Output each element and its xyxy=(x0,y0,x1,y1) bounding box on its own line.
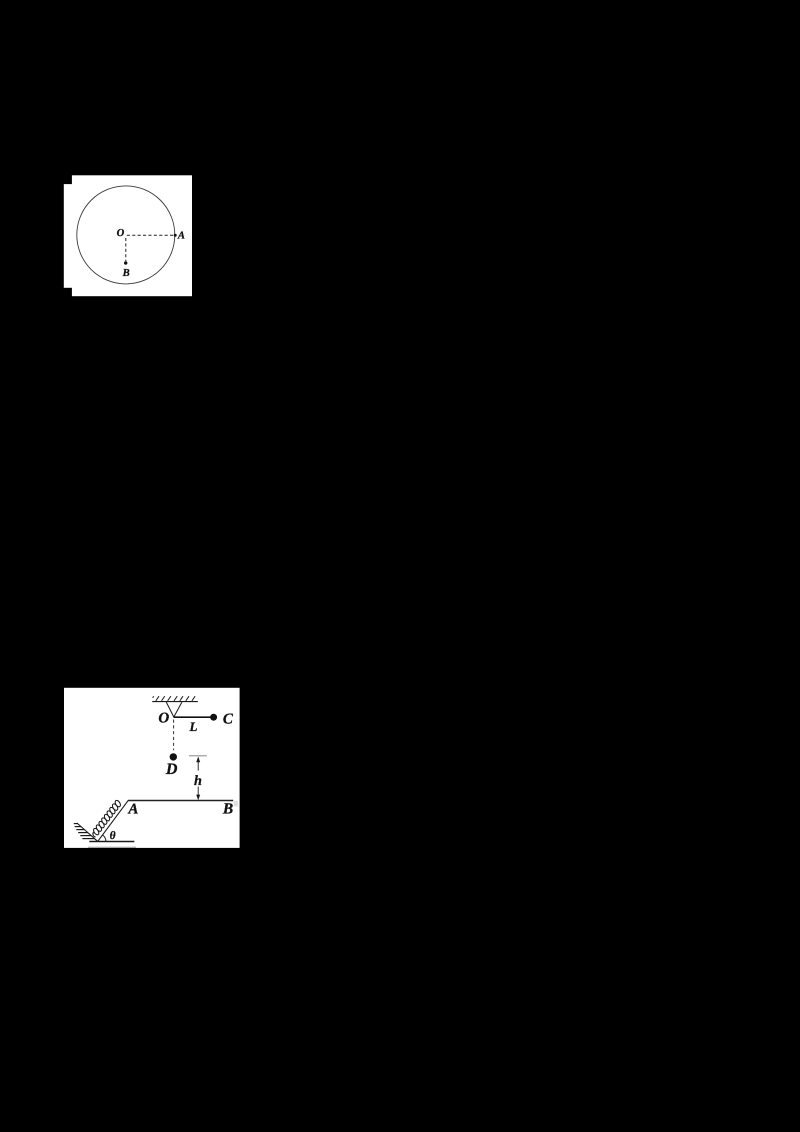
h dimension arrow lower segment with down arrowhead xyxy=(196,787,200,801)
angle theta arc xyxy=(103,835,106,841)
svg-text:C: C xyxy=(223,711,234,727)
node B dot xyxy=(124,261,127,264)
wall line xyxy=(77,823,98,841)
svg-text:θ: θ xyxy=(110,830,116,842)
svg-text:O: O xyxy=(158,711,169,727)
figure 1 white panel xyxy=(64,175,192,296)
svg-text:D: D xyxy=(165,761,178,778)
platform AB top line xyxy=(128,800,233,802)
svg-text:A: A xyxy=(177,231,185,242)
rod O to C xyxy=(174,716,211,718)
svg-text:B: B xyxy=(122,268,130,279)
figure 2 white panel xyxy=(64,688,240,848)
h reference tick line xyxy=(189,755,207,757)
ground line xyxy=(89,841,134,843)
incline line xyxy=(98,800,129,841)
dashed radius wire O to B xyxy=(125,238,127,261)
node A dot on circle xyxy=(174,234,177,237)
ceiling line xyxy=(152,701,198,703)
wall hatching xyxy=(74,824,95,839)
ceiling hatching xyxy=(153,696,196,701)
faint scan line at panel bottom xyxy=(88,846,136,848)
svg-text:O: O xyxy=(117,228,125,239)
h dimension arrow upper segment with up arrowhead xyxy=(196,757,200,771)
circle (vertical circular track) xyxy=(77,186,175,284)
svg-text:A: A xyxy=(127,802,138,818)
dashed plumb line from O xyxy=(173,720,175,751)
svg-text:h: h xyxy=(194,773,202,789)
faint scan smudge right of B xyxy=(234,801,238,807)
pivot triangle O xyxy=(166,702,182,717)
dashed radius wire O to A xyxy=(127,234,174,236)
spring on incline xyxy=(92,799,121,837)
ball D xyxy=(170,753,177,760)
svg-text:B: B xyxy=(222,800,233,817)
ball C xyxy=(210,714,217,721)
svg-text:L: L xyxy=(189,719,198,734)
